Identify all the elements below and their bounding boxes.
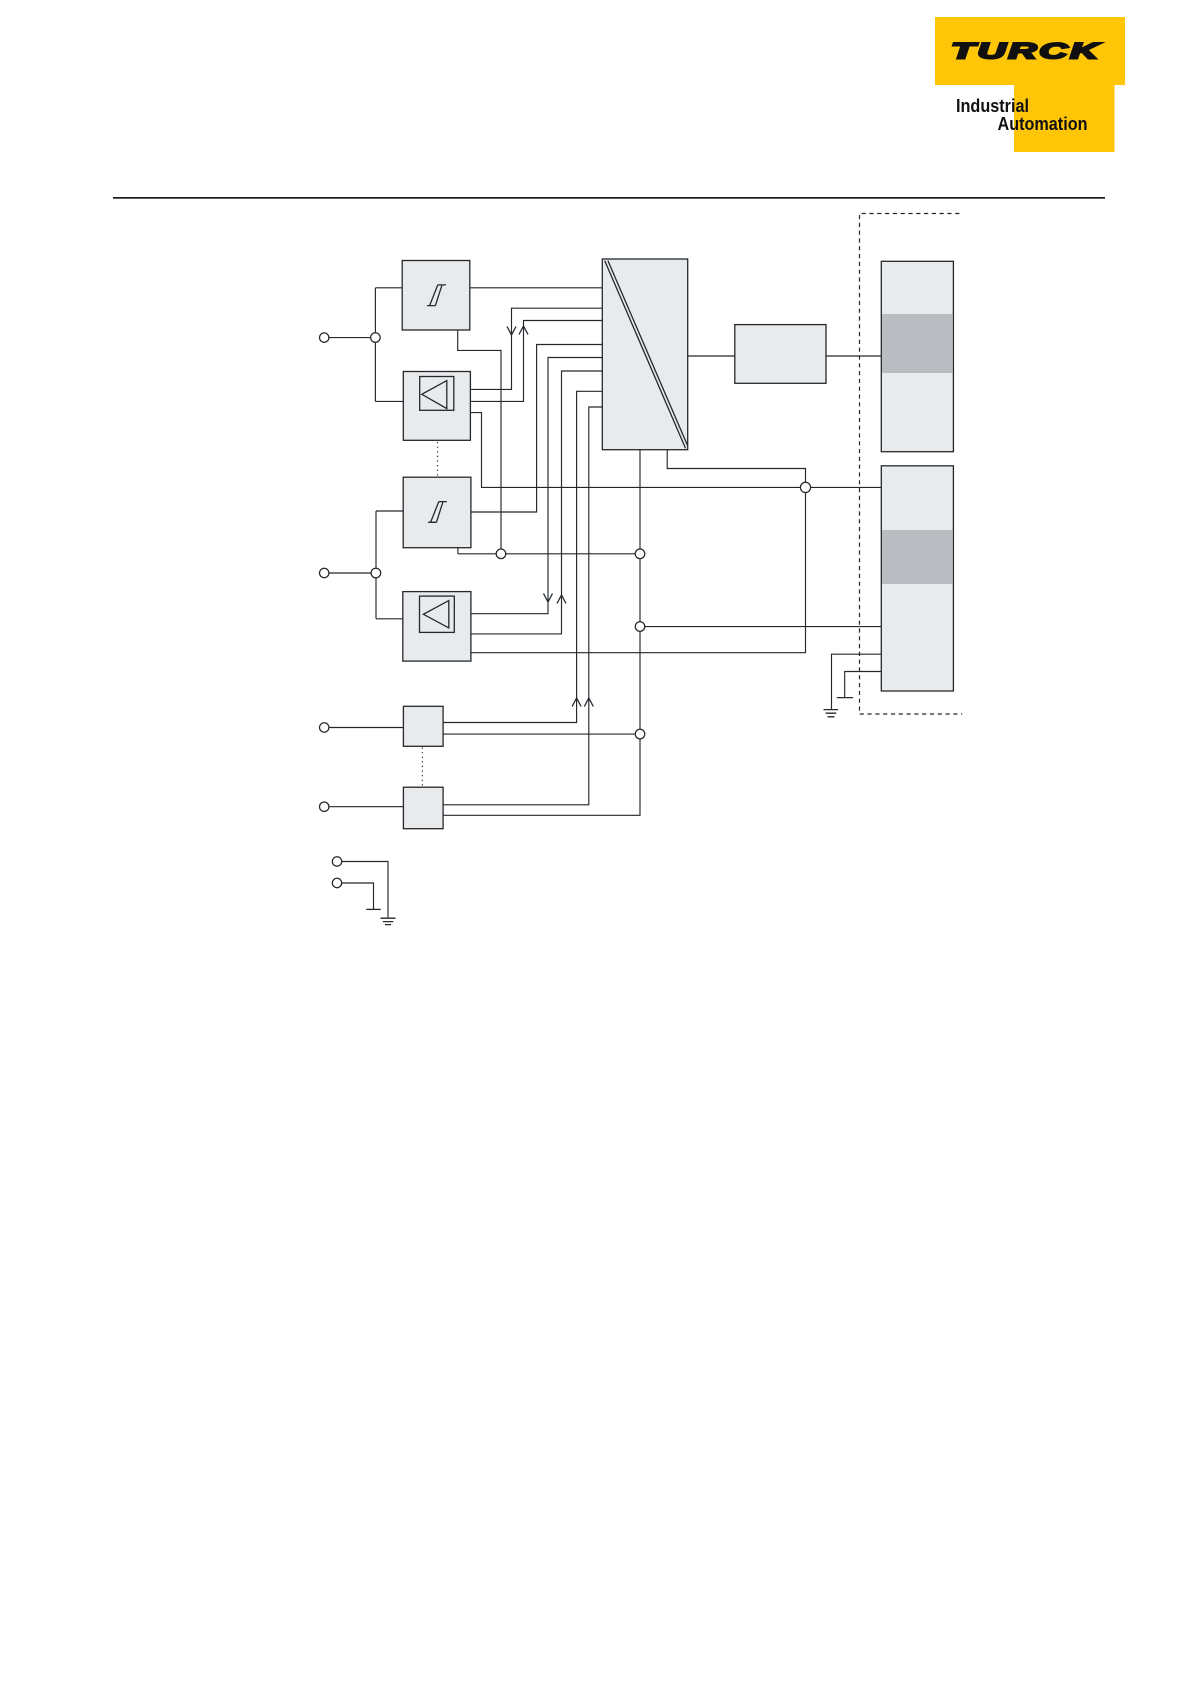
dashed device boundary	[860, 214, 963, 715]
node J2	[371, 568, 381, 578]
chassis bar symbol at K2	[837, 697, 853, 699]
earth ground symbol at K2	[824, 710, 839, 717]
left-pointing amplifier triangle of A1	[422, 381, 447, 409]
node J7	[800, 482, 810, 492]
earth ground symbol bottom left	[380, 918, 395, 924]
svg-text:Automation: Automation	[998, 114, 1088, 134]
wire node J7 to connector K2	[806, 486, 882, 488]
node J1	[371, 333, 381, 343]
wire J1 branch to A1 input	[375, 400, 403, 402]
terminal T4	[320, 802, 329, 811]
ramp characteristic symbol in F1	[427, 285, 446, 306]
wire terminal1 to node J1	[329, 337, 376, 339]
wire B1 status to U1	[443, 391, 602, 722]
wire K2 to chassis bar	[845, 672, 882, 698]
wire F1 bottom tap to node J3	[458, 330, 501, 554]
output amplifier block A1	[403, 372, 470, 441]
galvanic isolation amplifier U1	[602, 259, 687, 450]
inner square of A2	[420, 596, 455, 632]
wire terminal4 to B2	[329, 806, 404, 808]
down arrow on A1 drive wire	[507, 327, 516, 336]
node J3	[496, 549, 506, 559]
wire A2 line tap to node J7	[471, 487, 806, 652]
fieldbus connector block K2	[881, 466, 953, 691]
node J6	[635, 729, 645, 739]
node J4	[635, 549, 645, 559]
dotted continuation between B1 and B2	[421, 748, 423, 787]
svg-text:Industrial: Industrial	[956, 96, 1029, 116]
wire F2 output to U1	[471, 345, 602, 513]
up arrow on B1 status wire	[572, 698, 581, 707]
wire A2 feedback to U1	[471, 371, 602, 634]
wire A1 line tap to node J7	[470, 413, 805, 488]
dotted continuation between A1 and F2	[437, 442, 439, 477]
ramp function block F2	[403, 477, 471, 548]
wire U1 common rail down to B2	[443, 450, 640, 816]
wire J1 branch to F1 input	[375, 287, 402, 289]
chassis bar symbol bottom left	[366, 908, 381, 910]
isolation diagonal double line of U1	[605, 261, 688, 449]
wire U1 to A1 drive input	[470, 308, 602, 389]
binary input block B2	[403, 787, 443, 829]
wire U1 output to power block P1	[688, 355, 735, 357]
dark band of K1	[882, 314, 953, 373]
wire F2 bottom tap to node J3	[457, 548, 459, 554]
wire U1 bottom tap to node J7	[667, 450, 805, 488]
ramp characteristic symbol in F2	[428, 502, 447, 523]
wire J2 branch to A2 input	[376, 618, 403, 620]
ramp function block F1	[402, 261, 470, 331]
wire terminal6 to chassis bar	[342, 883, 374, 909]
binary input block B1	[403, 706, 443, 746]
terminal T5	[332, 857, 341, 866]
left-pointing amplifier triangle of A2	[423, 601, 448, 628]
wire node J5 to connector K2	[640, 626, 881, 628]
output amplifier block A2	[403, 592, 471, 662]
wire terminal5 to earth ground	[342, 862, 388, 919]
up arrow on A2 feedback wire	[557, 595, 566, 604]
wire U1 to A2 drive input	[471, 358, 602, 614]
up arrow on B2 status wire	[584, 698, 593, 707]
power supply block P1	[735, 325, 826, 384]
wire B1 common to node J6	[443, 733, 640, 735]
wire vertical branch at J1	[374, 288, 376, 402]
terminal T3	[320, 723, 329, 732]
terminal T6	[332, 878, 341, 887]
dark band of K2	[882, 530, 953, 584]
wire P1 to connector K1	[826, 355, 881, 357]
header rule	[113, 197, 1105, 199]
up arrow on A1 feedback wire	[519, 326, 528, 335]
wire node J3 to node J4	[458, 553, 640, 555]
wire F1 output to isolator U1	[470, 287, 603, 289]
TURCK logo yellow T (stem)	[1014, 84, 1115, 152]
terminal T2	[320, 568, 329, 577]
wire A1 feedback to U1	[470, 321, 602, 402]
wire K2 to earth ground	[832, 654, 882, 709]
inner square of A1	[420, 377, 454, 411]
node J5	[635, 622, 645, 632]
wire vertical branch at J2	[375, 511, 377, 619]
wire terminal2 to node J2	[329, 572, 376, 574]
svg-text:TURCK: TURCK	[951, 39, 1102, 64]
down arrow on A2 drive wire	[544, 594, 553, 603]
terminal T1	[320, 333, 329, 342]
wire B2 status to U1	[443, 407, 602, 805]
wire J2 branch to F2 input	[376, 510, 403, 512]
TURCK logo yellow T (top bar)	[935, 17, 1125, 85]
wire terminal3 to B1	[329, 727, 404, 729]
fieldbus connector block K1	[881, 261, 953, 451]
